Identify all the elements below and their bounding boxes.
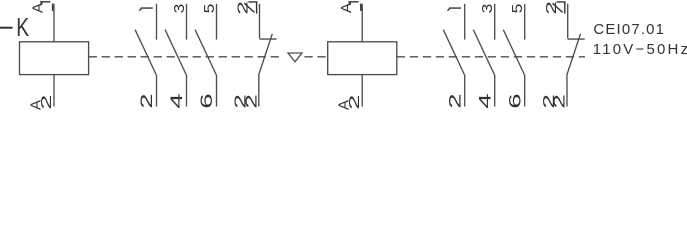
svg-text:2: 2 [345, 95, 362, 110]
contact 21-22 group2 NC foot bar [568, 38, 585, 40]
contact 1-2 pole 1 bottom wire [156, 75, 158, 107]
contact 21-22 NC top wire [259, 4, 261, 39]
label 1 group2 top [448, 8, 462, 11]
contact 21-22 group2 NC bottom wire [566, 75, 568, 106]
contact 5-6 pole 3 bottom wire [216, 75, 218, 107]
svg-text:6: 6 [197, 93, 216, 108]
contact 21-22 group2 NC blade [567, 34, 581, 75]
wire mechanical link dashed coil K2 to contacts group 2 [397, 56, 585, 58]
svg-text:2: 2 [137, 93, 156, 108]
contact 21-22 NC blade [259, 34, 273, 75]
contact 3-4 group2 top wire [494, 4, 496, 40]
contact 1-2 pole 1 blade [135, 30, 156, 75]
wire A2 lead bottom coil K2 [361, 75, 363, 107]
svg-text:3: 3 [479, 4, 496, 14]
label A2 coil K1 [28, 95, 55, 110]
contact 3-4 group2 bottom wire [494, 75, 496, 107]
svg-text:110V−50Hz: 110V−50Hz [593, 41, 687, 58]
label 21 group2 NC top [543, 1, 565, 15]
svg-text:5: 5 [509, 4, 526, 14]
svg-text:4: 4 [475, 93, 494, 108]
svg-text:2: 2 [445, 93, 464, 108]
svg-text:CEI07.01: CEI07.01 [593, 21, 665, 38]
wire dashed link after triangle to coil K2 [304, 56, 327, 58]
svg-text:2: 2 [242, 94, 260, 108]
coil K1 rectangle [20, 42, 89, 75]
wire mechanical link dashed coil K1 to contacts [89, 56, 282, 58]
contact 21-22 NC foot bar [260, 38, 277, 40]
label A1 coil K2 [338, 2, 361, 13]
svg-text:3: 3 [171, 4, 188, 14]
contact 3-4 group2 blade [473, 30, 494, 75]
contact 5-6 group2 blade [503, 30, 524, 75]
wire A2 lead bottom coil K1 [53, 75, 55, 107]
coil K2 rectangle [328, 42, 397, 75]
mechanical link triangle marker [288, 53, 302, 62]
svg-text:K: K [16, 12, 29, 42]
svg-text:A: A [338, 3, 355, 13]
contact 3-4 pole 2 bottom wire [186, 75, 188, 107]
wire A1 lead top coil K1 [53, 4, 55, 42]
label 22 group2 NC bottom [540, 94, 569, 108]
contact 1-2 group2 blade [443, 30, 464, 75]
label 21 contact NC top [235, 1, 257, 15]
svg-text:6: 6 [505, 93, 524, 108]
label -K coil designator dash [0, 27, 13, 29]
contact 5-6 pole 3 blade [195, 30, 216, 75]
contact 1-2 pole 1 top wire [156, 4, 158, 40]
contact 5-6 group2 top wire [524, 4, 526, 40]
svg-text:2: 2 [550, 94, 568, 108]
label A1 coil K1 [30, 2, 53, 13]
label A2 coil K2 [336, 95, 363, 110]
contact 5-6 pole 3 top wire [216, 4, 218, 40]
contact 5-6 group2 bottom wire [524, 75, 526, 107]
label 22 contact NC bottom [231, 94, 260, 108]
contact 3-4 pole 2 blade [165, 30, 186, 75]
contact 1-2 group2 bottom wire [464, 75, 466, 107]
contact 1-2 group2 top wire [464, 4, 466, 40]
svg-text:2: 2 [37, 95, 54, 110]
svg-text:A: A [30, 3, 47, 13]
svg-text:4: 4 [167, 93, 186, 108]
wire A1 lead top coil K2 [361, 4, 363, 42]
label 1 contact pole 1 top [139, 8, 153, 11]
contact 21-22 NC bottom wire [258, 75, 260, 106]
contact 3-4 pole 2 top wire [186, 4, 188, 40]
contact 21-22 group2 NC top wire [567, 4, 569, 39]
svg-text:5: 5 [201, 4, 218, 14]
